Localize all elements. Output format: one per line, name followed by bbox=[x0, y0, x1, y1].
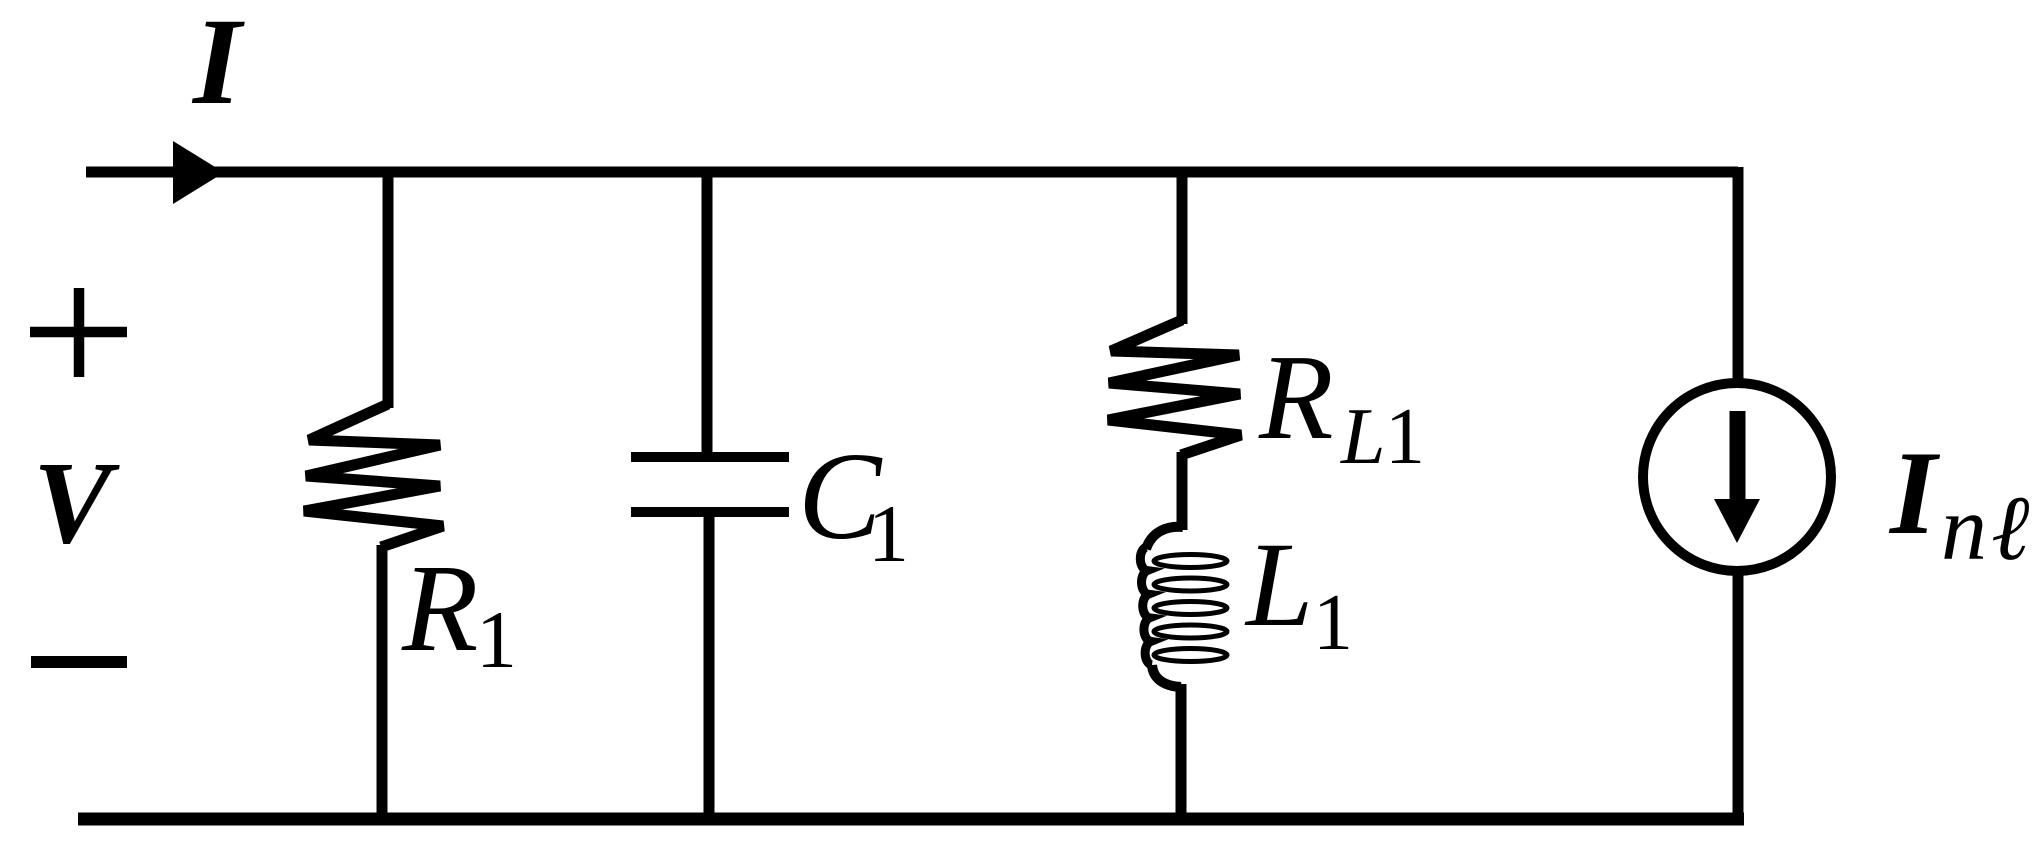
resistor R1 bbox=[304, 404, 443, 547]
inductor L1 bbox=[1140, 527, 1227, 687]
svg-text:I: I bbox=[1888, 426, 1941, 559]
wire R1 branch top bbox=[383, 167, 394, 408]
bottom wire bbox=[78, 813, 1744, 826]
top wire bbox=[86, 167, 1738, 178]
current source arrow head bbox=[1714, 499, 1760, 543]
capacitor C1 bottom plate bbox=[631, 507, 789, 517]
wire L1 branch bottom bbox=[1176, 684, 1187, 822]
svg-text:1: 1 bbox=[1313, 579, 1353, 667]
wire right branch bottom bbox=[1733, 571, 1744, 822]
svg-text:1: 1 bbox=[476, 594, 517, 685]
svg-text:nℓ: nℓ bbox=[1941, 477, 2033, 579]
minus sign bbox=[31, 656, 127, 668]
svg-text:1: 1 bbox=[868, 488, 909, 579]
wire between RL1 and L1 bbox=[1177, 452, 1188, 530]
svg-text:L: L bbox=[1244, 518, 1313, 652]
current arrow on top wire bbox=[173, 141, 224, 204]
capacitor C1 top plate bbox=[631, 452, 789, 462]
wire R1 branch bottom bbox=[377, 545, 388, 822]
wire C1 branch bottom bbox=[704, 512, 715, 822]
svg-text:V: V bbox=[33, 437, 120, 568]
svg-text:1: 1 bbox=[1385, 393, 1425, 481]
plus sign bbox=[30, 288, 127, 377]
wire C1 branch top bbox=[702, 167, 713, 460]
svg-text:L: L bbox=[1340, 393, 1386, 481]
wire right branch top bbox=[1733, 167, 1744, 383]
current source Inl circle bbox=[1643, 383, 1831, 571]
current source arrow shaft bbox=[1730, 411, 1746, 503]
resistor RL1 bbox=[1108, 320, 1241, 455]
svg-text:I: I bbox=[191, 0, 245, 130]
svg-text:R: R bbox=[1258, 330, 1334, 465]
wire RL1 branch top bbox=[1177, 167, 1188, 324]
svg-text:R: R bbox=[401, 540, 478, 678]
